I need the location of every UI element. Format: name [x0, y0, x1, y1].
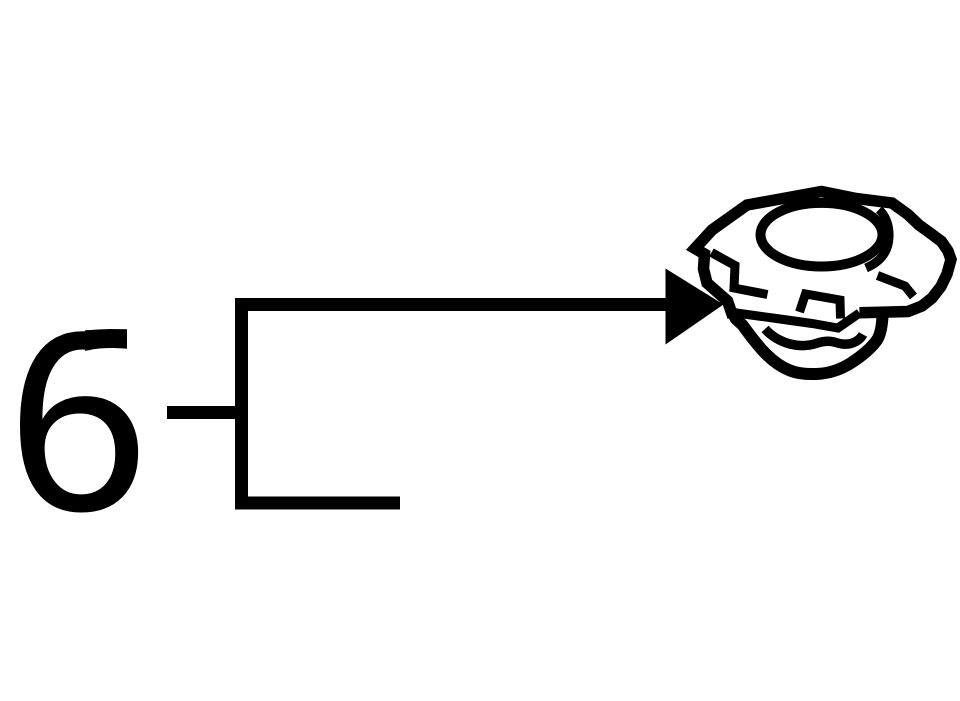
left groove mark [712, 253, 768, 295]
cap outer scalloped rim [695, 192, 951, 318]
offset arc right of ellipse [866, 210, 889, 269]
trapezoid detail [800, 294, 841, 319]
bracket vertical line [235, 298, 248, 510]
svg-text:6: 6 [7, 279, 149, 565]
arm-end trim (white) [90, 324, 154, 391]
cap top ellipse [761, 203, 883, 267]
bracket bottom horizontal line [235, 497, 400, 510]
leader line from 6 [167, 406, 236, 419]
arm rebuild patch [85, 329, 127, 351]
face bottom edge line [737, 313, 860, 328]
right groove mark [878, 276, 914, 297]
arrow shaft line [235, 298, 668, 311]
skirt lower curve [732, 311, 883, 374]
wavy reflection line [765, 329, 863, 346]
arrowhead [666, 269, 724, 345]
